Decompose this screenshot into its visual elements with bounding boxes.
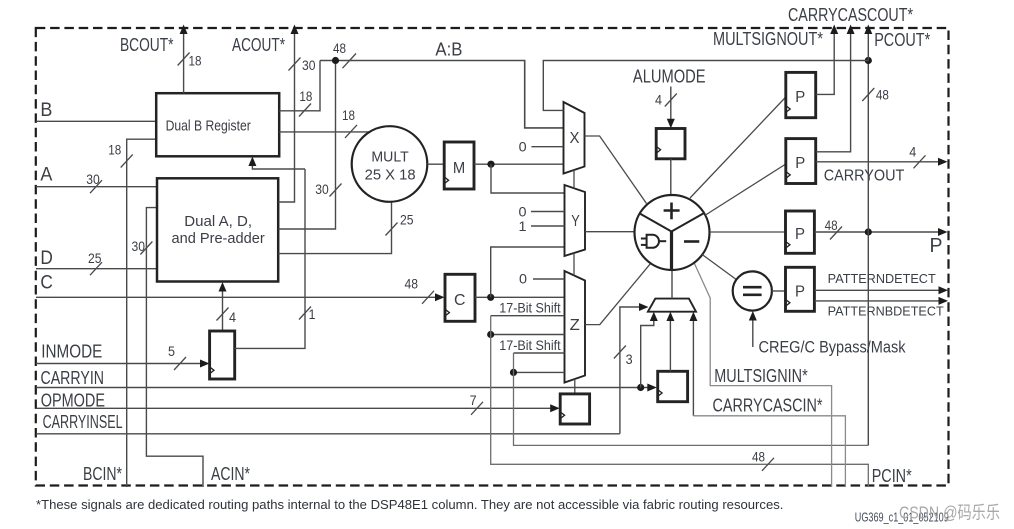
Dual B Register block [156, 93, 279, 156]
wire ACOUT output [278, 29, 294, 203]
wire M output to X mux [474, 163, 564, 165]
svg-text:CARRYIN: CARRYIN [41, 368, 105, 388]
bus tick P trunk 48 [862, 88, 874, 101]
svg-text:*These signals are dedicated r: *These signals are dedicated routing pat… [36, 497, 783, 512]
ALU add-sub-logic circle [635, 195, 710, 270]
wire CARRYINSEL input [36, 433, 620, 435]
P output register [786, 211, 815, 253]
wire CARRYCASCIN route [692, 315, 694, 416]
svg-text:M: M [453, 160, 465, 177]
svg-text:25: 25 [88, 251, 102, 266]
bus tick ACIN 30 [140, 242, 152, 255]
wire B input [36, 120, 157, 122]
svg-text:B: B [40, 99, 52, 121]
svg-text:Y: Y [571, 213, 580, 230]
svg-text:Dual B Register: Dual B Register [166, 117, 251, 134]
svg-text:P: P [795, 155, 805, 172]
wire INMODE register right output [235, 169, 305, 348]
wire mux select chain X-Y [573, 170, 575, 189]
ALU logic AND-gate symbol [647, 235, 659, 248]
svg-text:PCOUT*: PCOUT* [874, 30, 930, 50]
wire CARRYCASCOUT output [816, 29, 851, 152]
P register pattern detect [786, 267, 815, 311]
svg-text:CSDN @码乐乐: CSDN @码乐乐 [899, 503, 1000, 523]
wire B register upper output to A:B join [279, 61, 320, 111]
bus tick INMODE 5 [174, 357, 186, 370]
svg-text:25 X 18: 25 X 18 [365, 167, 416, 184]
svg-text:C: C [40, 272, 53, 294]
arrowhead ALUMODE into register [667, 119, 675, 129]
bus tick B upper 18 [299, 104, 311, 117]
ALU plus symbol [670, 203, 673, 220]
wire CARRYINSEL select [620, 307, 645, 434]
wire mux select chain Y-Z [573, 253, 575, 276]
wire P feedback route [514, 353, 869, 445]
Z multiplexer [565, 271, 586, 383]
wire CREG bypass into pattern detector [752, 314, 754, 347]
wire MULTSIGNIN route [694, 263, 832, 488]
svg-text:17-Bit Shift: 17-Bit Shift [499, 337, 560, 353]
bus tick ACOUT 30 [289, 58, 301, 71]
wire BCOUT output [183, 29, 185, 94]
svg-text:P: P [930, 235, 943, 257]
wire OPMODE input [36, 407, 558, 409]
arrowhead CARRYIN reg into carry mux [666, 312, 674, 321]
junction dot P feedback [510, 369, 517, 376]
svg-text:CARRYCASCOUT*: CARRYCASCOUT* [788, 5, 913, 25]
wire P vertical trunk [867, 61, 869, 446]
bus tick A:B 48 [343, 54, 357, 69]
wire INMODE to Dual B Register bottom [252, 160, 305, 170]
svg-text:PATTERNDETECT: PATTERNDETECT [828, 272, 936, 286]
svg-text:1: 1 [519, 218, 527, 234]
arrowhead INMODE into register [200, 360, 210, 368]
svg-text:18: 18 [299, 89, 312, 104]
svg-text:30: 30 [302, 58, 316, 73]
arrowhead CARRYINSEL into carry mux [639, 303, 649, 311]
dashed DSP48E1 slice boundary [36, 28, 949, 486]
wire P output to border [814, 231, 944, 233]
wire Z mux constant 0 [533, 278, 565, 280]
wire PCIN route [491, 316, 869, 487]
bus tick A vertical 30 [330, 184, 342, 197]
svg-text:30: 30 [315, 182, 329, 197]
wire X mux constant 0 [531, 146, 563, 148]
carry input multiplexer [648, 299, 696, 312]
junction dot P output [865, 228, 872, 235]
wire PCIN direct into Z mux [491, 334, 565, 336]
wire PCIN shifted into Z mux [491, 315, 565, 317]
wire Z mux output to ALU [585, 263, 651, 324]
svg-text:CARRYINSEL: CARRYINSEL [43, 412, 123, 432]
arrowhead P output [938, 228, 948, 236]
OPMODE register [560, 394, 589, 424]
wire ALUMODE register to ALU [670, 159, 672, 195]
wire Y mux constant 0 [531, 211, 565, 213]
wire ALUMODE into register [670, 87, 672, 126]
junction dot CARRYIN branch [637, 384, 644, 391]
C register [445, 274, 475, 321]
wire C output to Z mux [475, 296, 565, 298]
svg-text:48: 48 [405, 277, 419, 292]
svg-text:PATTERNBDETECT: PATTERNBDETECT [828, 304, 944, 318]
multiplier MULT 25x18 [352, 126, 428, 202]
svg-text:1: 1 [309, 307, 316, 322]
bus tick A 30 [90, 180, 102, 193]
CARRYIN register [658, 371, 688, 401]
svg-text:and Pre-adder: and Pre-adder [172, 230, 265, 247]
arrowhead CARRYIN direct into carry mux [650, 312, 658, 321]
wire PATTERNDETECT output [814, 289, 945, 291]
arrowhead ACOUT [291, 25, 299, 35]
svg-text:OPMODE: OPMODE [41, 390, 105, 410]
svg-text:Z: Z [570, 317, 580, 334]
junction dot PCOUT [865, 57, 872, 64]
P register CARRYOUT [786, 139, 816, 184]
bus tick C 48 [422, 291, 434, 304]
wire BCIN cascade input [127, 139, 157, 487]
svg-text:25: 25 [400, 213, 414, 228]
svg-text:P: P [795, 226, 805, 243]
ALU minus symbol [684, 240, 699, 243]
wire P direct into Z mux [514, 371, 565, 373]
wire PATTERNBDETECT output [814, 300, 945, 302]
arrowhead C into C register [435, 293, 445, 301]
wire INMODE input [36, 363, 207, 365]
svg-text:18: 18 [342, 108, 355, 123]
ALU sector divider up-right [672, 213, 704, 231]
svg-text:30: 30 [132, 239, 146, 254]
arrowhead CARRYIN into register [647, 384, 657, 392]
bus tick P out 48 [830, 227, 842, 240]
wire ACIN cascade input [146, 208, 203, 487]
svg-text:INMODE: INMODE [41, 342, 102, 362]
svg-text:C: C [454, 292, 466, 309]
svg-text:Dual A, D,: Dual A, D, [184, 213, 252, 230]
arrowhead PATTERNBDETECT [939, 297, 949, 305]
svg-text:A: A [40, 163, 52, 185]
wire P feedback to X mux [543, 61, 868, 111]
svg-text:CREG/C Bypass/Mask: CREG/C Bypass/Mask [759, 338, 906, 357]
svg-text:18: 18 [108, 143, 121, 158]
arrowhead PATTERNDETECT [939, 286, 949, 294]
wire PCOUT arrow [867, 29, 869, 61]
svg-text:CARRYCASCIN*: CARRYCASCIN* [713, 396, 823, 416]
svg-text:BCIN*: BCIN* [83, 464, 122, 484]
bus tick INMODE 4 [217, 308, 229, 321]
svg-text:4: 4 [655, 92, 662, 107]
ALU sector divider down thick [670, 232, 673, 270]
bus tick ALUMODE 4 [665, 94, 677, 107]
wire M branch to Y mux [491, 164, 565, 193]
bus tick CARRYINSEL 3 [614, 346, 626, 359]
wire A input [36, 186, 158, 188]
X multiplexer [564, 102, 585, 174]
svg-text:4: 4 [909, 145, 916, 160]
arrowhead MULTSIGNOUT [830, 25, 838, 35]
wire ALU to P output register [710, 231, 786, 233]
arrowhead BCOUT [180, 25, 188, 35]
svg-text:0: 0 [519, 139, 527, 155]
svg-text:MULT: MULT [371, 149, 408, 166]
svg-text:A:B: A:B [435, 40, 462, 60]
wire pattern detector to P register [772, 290, 786, 292]
svg-text:D: D [40, 247, 53, 269]
wire CARRYIN input [36, 387, 655, 389]
bus tick PCIN 48 [762, 458, 774, 471]
svg-text:48: 48 [825, 218, 838, 233]
svg-text:48: 48 [876, 88, 889, 103]
bus tick D 25 [90, 262, 102, 275]
ALU sector divider up-left [639, 213, 671, 231]
svg-text:18: 18 [189, 54, 202, 69]
svg-text:17-Bit Shift: 17-Bit Shift [499, 299, 560, 315]
svg-text:5: 5 [168, 344, 175, 359]
INMODE register [210, 331, 235, 379]
arrowhead into pre-adder [219, 282, 227, 292]
Dual A D and Pre-adder block [157, 178, 278, 281]
arrowhead CARRYCASCOUT [847, 25, 855, 35]
wire INMODE to pre-adder bottom [222, 285, 224, 331]
wire C branch to Y mux [491, 247, 565, 297]
arrowhead OPMODE into register [550, 404, 560, 412]
wire CARRYIN direct branch to carry mux [641, 315, 654, 388]
svg-text:ACIN*: ACIN* [211, 464, 250, 484]
wire carry mux output to ALU [671, 270, 673, 299]
svg-text:BCOUT*: BCOUT* [120, 35, 174, 55]
wire X mux output to ALU [585, 136, 647, 204]
wire A:B bus to X mux [320, 61, 564, 128]
bus tick BCOUT 18 [178, 53, 190, 66]
arrowhead CARRYOUT [938, 158, 948, 166]
junction dot M output [487, 161, 494, 168]
svg-text:PCIN*: PCIN* [872, 466, 912, 486]
arrowhead CREG into pattern detector [749, 311, 757, 321]
Y multiplexer [565, 185, 586, 256]
P register MULTSIGNOUT [786, 72, 816, 117]
wire C input [36, 296, 443, 298]
bus tick B lower 18 [345, 125, 357, 138]
wire ALU to CARRYOUT P register [706, 164, 786, 215]
svg-text:3: 3 [626, 352, 633, 367]
junction dot A:B [332, 57, 339, 64]
svg-text:X: X [570, 130, 581, 147]
arrowhead CARRYCASCIN into carry mux [689, 312, 697, 321]
svg-text:ALUMODE: ALUMODE [633, 66, 706, 86]
svg-text:30: 30 [86, 172, 100, 187]
wire MULTSIGNOUT output [816, 29, 835, 95]
svg-text:P: P [795, 283, 805, 300]
wire B register lower output to multiplier [279, 131, 369, 133]
ALUMODE register [656, 129, 685, 159]
bus tick pre-adder 25 [386, 223, 398, 236]
bus tick CARRYOUT 4 [914, 155, 926, 168]
wire CARRYOUT output [816, 161, 945, 163]
wire pre-adder output to multiplier [278, 202, 391, 254]
pattern detector equals circle [733, 271, 772, 310]
wire CARRYIN register output to carry mux [669, 315, 671, 372]
wire MULT to M register [427, 163, 444, 165]
wire ALU to pattern detector [702, 255, 736, 280]
svg-text:MULTSIGNIN*: MULTSIGNIN* [714, 366, 807, 386]
wire Y mux output to ALU [585, 231, 635, 233]
svg-text:ACOUT*: ACOUT* [232, 35, 285, 55]
svg-text:4: 4 [229, 310, 236, 325]
wire P shifted into Z mux [514, 352, 565, 354]
wire OPMODE register to Z mux select [574, 379, 576, 394]
arrowhead into Dual B Register [248, 157, 256, 167]
svg-text:MULTSIGNOUT*: MULTSIGNOUT* [713, 29, 823, 49]
svg-text:7: 7 [470, 393, 477, 408]
svg-text:48: 48 [752, 450, 765, 465]
junction dot C output [487, 294, 494, 301]
svg-text:CARRYOUT: CARRYOUT [824, 167, 905, 184]
svg-text:0: 0 [519, 271, 527, 287]
wire ALU to MULTSIGNOUT P register [690, 97, 786, 198]
wire D input [36, 268, 158, 270]
bus tick BCIN 18 [121, 155, 133, 168]
wire A output to A:B join [278, 61, 335, 230]
bus tick OPMODE 7 [471, 402, 483, 415]
junction dot PCIN [487, 331, 494, 338]
bus tick INMODE out 1 [299, 307, 311, 320]
arrowhead PCOUT [864, 25, 872, 35]
svg-text:48: 48 [333, 41, 346, 56]
M register [444, 142, 474, 189]
svg-text:P: P [795, 89, 805, 106]
wire Y mux constant 1 [531, 225, 565, 227]
